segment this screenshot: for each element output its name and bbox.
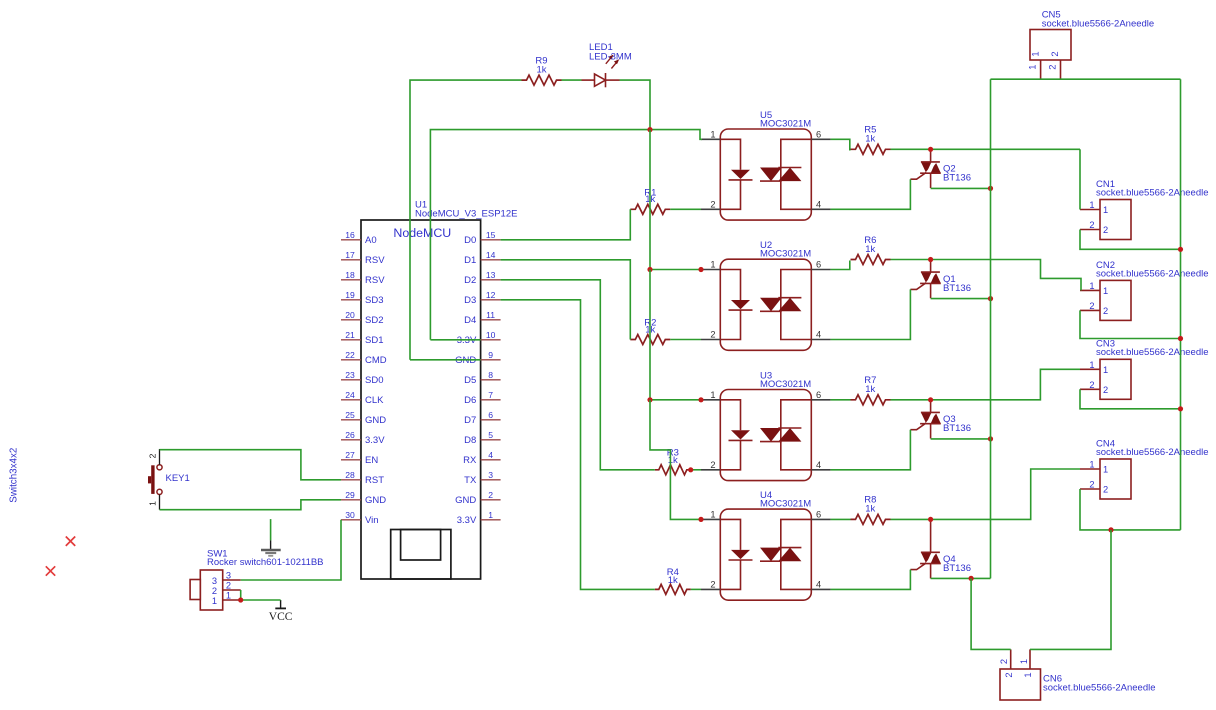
wire left rail CN5 to Q4 [990,79,992,578]
svg-text:25: 25 [345,410,355,420]
wire to U2 pin1 [650,269,701,271]
CN3 pin 1 [1080,368,1100,370]
svg-text:D8: D8 [464,435,476,446]
U2 pin 6 [811,269,830,271]
svg-text:SD2: SD2 [365,315,383,326]
svg-text:6: 6 [816,509,821,519]
U1 pin 8 D5 [481,379,501,381]
wire CN3 pin2 to rail [1080,389,1181,409]
U1 pin 16 A0 [341,239,361,241]
wire rail to U3 pin1 level [649,270,651,400]
svg-text:2: 2 [148,453,158,458]
svg-text:1: 1 [1089,460,1094,470]
junction CN2 rail [1178,336,1183,341]
svg-text:LED-3MM: LED-3MM [589,52,632,63]
U5 pin 1 [701,138,720,140]
wire U2 pin6 to R6 [831,261,850,270]
U1 pin 20 SD2 [341,319,361,321]
svg-text:GND: GND [455,355,476,366]
CN1 pin 2 [1080,229,1100,231]
svg-text:26: 26 [345,430,355,440]
svg-text:29: 29 [345,490,355,500]
resistor R9 1k [522,75,562,85]
CN6 pin 1 [1029,649,1031,669]
svg-text:12: 12 [486,290,496,300]
SW1 pin 1 [223,599,241,601]
wire CN4 branch to CN6 pin1 [1030,530,1111,650]
wire R6 to CN2 pin1 [891,260,1082,291]
svg-text:27: 27 [345,450,355,460]
svg-text:3: 3 [488,470,493,480]
U3 pin 2 [701,469,720,471]
U1 pin 4 RX [481,459,501,461]
svg-text:BT136: BT136 [943,423,971,434]
svg-text:RSV: RSV [365,275,385,286]
svg-text:3.3V: 3.3V [457,515,477,526]
optocoupler U3 MOC3021M body [720,390,811,481]
svg-text:1: 1 [1089,360,1094,370]
U1 pin 11 D4 [481,319,501,321]
svg-text:1: 1 [1019,659,1029,664]
svg-text:13: 13 [486,270,496,280]
U5 pin 4 [811,208,830,210]
CN4 pin 1 [1080,468,1100,470]
U4 pin 4 [811,588,830,590]
wire D0 to R1 [501,209,631,240]
svg-text:D0: D0 [464,235,476,246]
svg-text:D1: D1 [464,255,476,266]
svg-text:20: 20 [345,310,355,320]
wire CN1 pin2 to rail [1080,230,1181,250]
svg-text:1: 1 [148,501,158,506]
svg-text:1k: 1k [865,244,875,255]
svg-text:4: 4 [488,450,493,460]
CN3 pin 2 [1080,388,1100,390]
svg-text:2: 2 [1089,480,1094,490]
U1 usb connector inner [401,530,441,561]
wire R1 to U5 pin2 [670,208,701,210]
CN4 pin 2 [1080,488,1100,490]
CN6 pin 2 [1010,649,1012,669]
resistor R3 1k [655,465,691,475]
U1 pin 29 GND [341,499,361,501]
wire rail to U2 pin1 level [649,130,651,270]
switch SW1 Rocker switch601-10211BB body [200,570,222,610]
wire Q4 MT1 to rail [931,577,991,579]
svg-text:1: 1 [710,390,715,400]
junction CN1 rail [1178,247,1183,252]
U1 pin 21 SD1 [341,339,361,341]
connector CN3 socket.blue5566-2Aneedle body [1100,359,1131,399]
wire R3 to U3 pin2 [691,469,701,471]
svg-text:2: 2 [1089,380,1094,390]
svg-text:1: 1 [212,596,217,606]
wire drop to CN1 pin1 [1079,149,1081,209]
wire R7 to CN3 pin1 [891,369,1081,400]
CN2 pin 1 [1080,289,1100,291]
wire CN4 pin2 to rail [1080,489,1181,530]
CN5 pin 2 [1060,60,1062,79]
svg-text:9: 9 [488,350,493,360]
junction R8 Q4 [928,517,933,522]
junction U3 pin1 [698,397,703,402]
svg-text:2: 2 [1103,485,1108,495]
svg-text:D2: D2 [464,275,476,286]
svg-text:30: 30 [345,510,355,520]
wire D3 to R4 [501,300,655,590]
junction Q2 rail [988,186,993,191]
resistor R7 1k [851,395,891,405]
U1 pin 28 RST [341,479,361,481]
svg-text:2: 2 [1004,672,1014,677]
wire U1 GND9 up to R9 [410,80,522,360]
U1 pin 12 D3 [481,299,501,301]
svg-text:CMD: CMD [365,355,387,366]
led LED1 LED-3MM [582,79,595,81]
svg-text:1k: 1k [668,575,678,586]
svg-text:28: 28 [345,470,355,480]
connector CN4 socket.blue5566-2Aneedle body [1100,459,1131,499]
U3 pin 6 [811,399,830,401]
svg-text:4: 4 [816,460,821,470]
svg-text:RSV: RSV [365,255,385,266]
junction R6 Q1 [928,257,933,262]
svg-text:8: 8 [488,370,493,380]
svg-text:MOC3021M: MOC3021M [760,379,811,390]
wire Q1 gate to U2 pin4 [831,289,911,339]
connector CN2 socket.blue5566-2Aneedle body [1100,280,1131,320]
svg-text:A0: A0 [365,235,377,246]
wire R9 to LED1 [562,79,582,81]
svg-text:23: 23 [345,370,355,380]
svg-text:GND: GND [365,415,386,426]
triac Q4 BT136 [930,519,932,552]
junction SW1 pin1 [238,597,243,602]
svg-text:SD0: SD0 [365,375,383,386]
wire R5 to CN1 pin1 drop [891,148,1081,150]
svg-text:2: 2 [1089,220,1094,230]
svg-text:14: 14 [486,250,496,260]
SW1 pin 2 [223,589,241,591]
U1 pin 5 D8 [481,439,501,441]
U1 pin 1 3.3V [481,519,501,521]
svg-text:3: 3 [212,576,217,586]
wire Q4 branch to CN6 pin2 [971,578,1011,649]
svg-text:1: 1 [488,510,493,520]
wire CN5 bottom horizontal [991,78,1181,80]
svg-text:CLK: CLK [365,395,384,406]
svg-text:Vin: Vin [365,515,379,526]
junction Q1 rail [988,296,993,301]
CN2 pin 2 [1080,309,1100,311]
svg-text:2: 2 [710,330,715,340]
svg-text:4: 4 [816,199,821,209]
svg-text:socket.blue5566-2Aneedle: socket.blue5566-2Aneedle [1096,447,1209,458]
CN5 pin 1 [1040,60,1042,79]
svg-text:2: 2 [1050,51,1060,56]
U1 pin 7 D6 [481,399,501,401]
svg-text:2: 2 [1103,225,1108,235]
triac Q2 BT136 [930,149,932,162]
svg-text:3.3V: 3.3V [457,335,477,346]
svg-text:socket.blue5566-2Aneedle: socket.blue5566-2Aneedle [1043,682,1156,693]
svg-text:BT136: BT136 [943,173,971,184]
svg-text:GND: GND [365,495,386,506]
U1 pin 9 GND [481,359,501,361]
ic U1 NodeMCU_V3_ESP12E body [361,220,481,579]
U4 pin 2 [701,588,720,590]
svg-text:1: 1 [1089,281,1094,291]
svg-text:NodeMCU: NodeMCU [393,226,451,240]
wire Q2 MT1 to rail [931,187,991,189]
resistor R1 1k [630,204,670,214]
U1 pin 10 3.3V [481,339,501,341]
svg-text:GND: GND [455,495,476,506]
svg-text:15: 15 [486,230,496,240]
svg-text:5: 5 [488,430,493,440]
svg-text:TX: TX [464,475,477,486]
CN1 pin 1 [1080,209,1100,211]
svg-text:D3: D3 [464,295,476,306]
svg-text:7: 7 [488,390,493,400]
optocoupler U4 MOC3021M body [720,509,811,600]
wire U5 pin6 to R5 [831,139,850,150]
junction [647,397,652,402]
svg-text:KEY1: KEY1 [166,473,190,484]
junction [647,267,652,272]
wire U1 3.3V up to node A [430,130,650,340]
wire node A to U5 pin1 [650,130,702,140]
svg-text:VCC: VCC [269,611,293,623]
junction Q4 CN6 [969,576,974,581]
wire SW1 pin2 to pin1 [240,590,242,600]
triac Q1 BT136 [930,260,932,273]
U1 pin 17 RSV [341,259,361,261]
U5 internal LED [720,139,740,209]
svg-text:2: 2 [1089,301,1094,311]
U1 pin 19 SD3 [341,299,361,301]
U1 pin 30 Vin [341,519,361,521]
svg-text:6: 6 [816,390,821,400]
ground symbol [270,519,272,540]
U1 pin 13 D2 [481,279,501,281]
wire Q2 gate to U5 pin4 [831,179,911,209]
svg-text:22: 22 [345,350,355,360]
svg-text:4: 4 [816,579,821,589]
wire GND9 row [410,359,481,361]
resistor R2 1k [630,335,670,345]
svg-text:1: 1 [710,509,715,519]
resistor R4 1k [655,584,691,594]
wire D2 to R3 [501,280,655,470]
SW1 pin 3 [223,579,241,581]
svg-text:1k: 1k [536,64,546,75]
U3 internal triac [781,400,812,470]
U4 pin 1 [701,518,720,520]
U1 pin 2 GND [481,499,501,501]
U1 pin 14 D1 [481,259,501,261]
LED1 arrows [606,57,612,64]
junction CN4 CN6 [1108,527,1113,532]
wire U1 Vin to SW1 pin3 [241,520,341,580]
svg-text:21: 21 [345,330,355,340]
resistor R8 1k [851,514,891,524]
svg-text:10: 10 [486,330,496,340]
svg-text:BT136: BT136 [943,283,971,294]
svg-text:24: 24 [345,390,355,400]
wire U4 pin6 to R8 [831,518,851,520]
U1 pin 23 SD0 [341,379,361,381]
wire Q3 gate to U3 pin4 [831,430,911,470]
svg-text:1: 1 [1023,672,1033,677]
svg-text:1: 1 [710,129,715,139]
svg-text:RX: RX [463,455,477,466]
svg-text:socket.blue5566-2Aneedle: socket.blue5566-2Aneedle [1096,268,1209,279]
junction U2 pin1 [698,267,703,272]
svg-text:socket.blue5566-2Aneedle: socket.blue5566-2Aneedle [1042,18,1155,29]
resistor R5 1k [851,144,891,154]
wire LED1 to node A [620,80,651,130]
U5 pin 6 [811,138,830,140]
svg-text:4: 4 [816,330,821,340]
wire R4 to U4 pin2 [691,588,701,590]
svg-text:1: 1 [1089,200,1094,210]
svg-text:1: 1 [1103,365,1108,375]
svg-text:2: 2 [710,579,715,589]
svg-text:2: 2 [999,659,1009,664]
U2 pin 4 [811,339,830,341]
junction R5 Q2 [928,147,933,152]
triac Q3 BT136 [930,400,932,413]
svg-text:1: 1 [1103,205,1108,215]
svg-text:11: 11 [486,310,495,320]
wire SW1 pin1 to VCC [241,599,281,601]
connector CN1 socket.blue5566-2Aneedle body [1100,200,1131,240]
wire Q3 MT1 to rail [931,438,991,440]
wire 3.3V row [430,339,480,341]
wire U3 pin6 to R7 [831,399,851,401]
svg-text:1: 1 [226,591,231,601]
wire R2 to U2 pin2 [670,339,701,341]
svg-text:1k: 1k [668,455,678,466]
optocoupler U2 MOC3021M body [720,259,811,350]
U1 pin 26 3.3V [341,439,361,441]
svg-text:2: 2 [1103,306,1108,316]
svg-text:MOC3021M: MOC3021M [760,499,811,510]
svg-text:EN: EN [365,455,378,466]
U2 pin 1 [701,269,720,271]
U1 pin 22 CMD [341,359,361,361]
svg-text:6: 6 [816,129,821,139]
svg-text:2: 2 [488,490,493,500]
svg-text:1k: 1k [865,384,875,395]
U3 pin 1 [701,399,720,401]
wire KEY1 pin2 to U1 RST [160,450,342,480]
svg-text:1k: 1k [865,504,875,515]
U3 pin 4 [811,469,830,471]
U4 internal triac [781,519,812,589]
U1 pin 27 EN [341,459,361,461]
connector CN6 socket.blue5566-2Aneedle body [1000,669,1041,700]
svg-text:2: 2 [1103,385,1108,395]
svg-text:SD1: SD1 [365,335,383,346]
junction Q3 rail [988,436,993,441]
svg-text:1: 1 [710,260,715,270]
U2 internal LED [720,270,740,340]
svg-text:D7: D7 [464,415,476,426]
svg-text:D6: D6 [464,395,476,406]
wire right rail [1180,79,1182,530]
svg-text:18: 18 [345,270,355,280]
U1 pin 6 D7 [481,419,501,421]
svg-text:1: 1 [1028,65,1038,70]
svg-text:MOC3021M: MOC3021M [760,118,811,129]
wire to U3 pin1 [650,399,701,401]
svg-text:19: 19 [345,290,355,300]
svg-text:RST: RST [365,475,384,486]
svg-text:2: 2 [1048,65,1058,70]
wire Q4 gate to U4 pin4 [831,570,911,590]
svg-text:6: 6 [488,410,493,420]
svg-text:1: 1 [1103,465,1108,475]
U1 pin 15 D0 [481,239,501,241]
junction R7 Q3 [928,397,933,402]
U4 internal LED [720,519,740,589]
svg-text:2: 2 [710,199,715,209]
U1 pin 25 GND [341,419,361,421]
U5 internal triac [781,139,812,209]
svg-text:1: 1 [1030,51,1040,56]
svg-text:2: 2 [226,581,231,591]
wire Q1 MT1 to rail [931,298,991,300]
wire CN2 pin2 to rail [1080,310,1181,338]
U2 pin 2 [701,339,720,341]
U1 pin 24 CLK [341,399,361,401]
svg-text:socket.blue5566-2Aneedle: socket.blue5566-2Aneedle [1096,187,1209,198]
svg-text:17: 17 [345,250,355,260]
wire KEY1 pin1 to U1 GND29 [160,500,342,510]
optocoupler U5 MOC3021M body [720,129,811,220]
svg-text:2: 2 [212,586,217,596]
U4 pin 6 [811,518,830,520]
U2 internal triac [781,270,812,340]
svg-text:SD3: SD3 [365,295,383,306]
switch KEY1 [157,465,162,470]
U3 internal LED [720,400,740,470]
svg-text:6: 6 [816,260,821,270]
svg-text:Rocker switch601-10211BB: Rocker switch601-10211BB [207,557,324,568]
error marker X1 [66,537,75,546]
svg-text:Switch3x4x2: Switch3x4x2 [9,448,20,503]
svg-text:socket.blue5566-2Aneedle: socket.blue5566-2Aneedle [1096,347,1209,358]
svg-text:D4: D4 [464,315,476,326]
VCC symbol [280,600,282,608]
junction node A [647,127,652,132]
svg-text:1k: 1k [865,134,875,145]
svg-text:1: 1 [1103,286,1108,296]
U1 pin 3 TX [481,479,501,481]
svg-text:MOC3021M: MOC3021M [760,249,811,260]
connector CN5 socket.blue5566-2Aneedle body [1030,30,1071,61]
svg-text:BT136: BT136 [943,563,971,574]
svg-text:3: 3 [226,571,231,581]
resistor R6 1k [851,255,891,265]
error marker X2 [46,566,55,575]
svg-text:D5: D5 [464,375,476,386]
wire D1 to R2 [501,260,631,340]
wire R8 to CN4 pin1 [891,469,1081,519]
junction CN3 rail [1178,406,1183,411]
